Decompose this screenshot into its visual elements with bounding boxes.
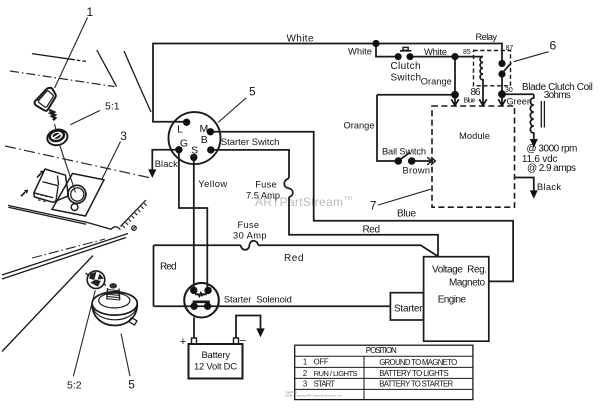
svg-text:Fuse: Fuse: [255, 180, 277, 190]
svg-text:B: B: [201, 134, 208, 146]
svg-text:Fuse: Fuse: [238, 220, 260, 230]
svg-text:30: 30: [505, 87, 513, 94]
svg-text:7: 7: [370, 199, 377, 213]
svg-text:Switch: Switch: [391, 73, 422, 84]
svg-text:Brown: Brown: [403, 166, 431, 176]
svg-text:–: –: [240, 335, 247, 347]
svg-text:2: 2: [303, 369, 307, 378]
svg-text:Clutch: Clutch: [391, 61, 421, 72]
svg-text:Red: Red: [284, 253, 304, 264]
svg-text:S: S: [191, 145, 198, 157]
svg-text:POSITION: POSITION: [366, 346, 397, 355]
svg-text:Relay: Relay: [476, 32, 498, 42]
svg-text:Red: Red: [363, 224, 381, 235]
svg-text:Black: Black: [155, 159, 178, 169]
svg-text:Orange: Orange: [344, 120, 375, 130]
svg-text:Green: Green: [507, 97, 533, 107]
svg-text:12 Volt DC: 12 Volt DC: [194, 360, 237, 371]
svg-text:BATTERY TO STARTER: BATTERY TO STARTER: [379, 380, 453, 389]
svg-text:RUN / LIGHTS: RUN / LIGHTS: [314, 369, 358, 378]
svg-text:Starter: Starter: [394, 303, 423, 314]
svg-text:Starter Solenoid: Starter Solenoid: [224, 294, 292, 305]
svg-text:L: L: [177, 124, 183, 136]
svg-text:+: +: [180, 336, 186, 348]
svg-text:Black: Black: [537, 182, 561, 192]
svg-text:85: 85: [463, 49, 471, 56]
svg-text:Voltage Reg.: Voltage Reg.: [432, 264, 487, 275]
svg-text:White: White: [287, 34, 314, 45]
svg-text:Magneto: Magneto: [449, 278, 485, 289]
svg-text:3: 3: [120, 129, 127, 143]
svg-text:Starter Switch: Starter Switch: [221, 136, 280, 147]
svg-text:Blue: Blue: [464, 97, 476, 104]
svg-text:TM: TM: [344, 196, 352, 202]
svg-text:G: G: [180, 138, 188, 150]
svg-text:5: 5: [128, 378, 135, 392]
svg-text:Module: Module: [459, 130, 490, 141]
svg-text:White: White: [348, 46, 372, 57]
svg-text:5:1: 5:1: [105, 101, 120, 113]
svg-text:@ 2.9 amps: @ 2.9 amps: [527, 163, 576, 174]
svg-text:1: 1: [87, 5, 94, 19]
svg-text:3: 3: [303, 380, 307, 389]
svg-text:87: 87: [506, 45, 514, 52]
svg-text:Battery: Battery: [202, 349, 231, 360]
svg-text:30 Amp: 30 Amp: [233, 231, 267, 241]
svg-text:Blue: Blue: [397, 209, 416, 220]
svg-text:1: 1: [303, 358, 307, 367]
svg-text:Red: Red: [160, 262, 177, 273]
svg-text:Orange: Orange: [421, 76, 452, 86]
svg-text:5: 5: [249, 85, 256, 99]
svg-text:Yellow: Yellow: [198, 179, 227, 190]
svg-text:BATTERY TO LIGHTS: BATTERY TO LIGHTS: [379, 369, 449, 378]
svg-text:Engine: Engine: [438, 295, 467, 306]
svg-text:Bail Switch: Bail Switch: [382, 147, 426, 157]
svg-text:OFF: OFF: [314, 358, 329, 367]
svg-text:6: 6: [550, 39, 557, 53]
svg-text:5:2: 5:2: [67, 380, 82, 392]
svg-text:GROUND TO MAGNETO: GROUND TO MAGNETO: [379, 358, 457, 367]
svg-text:White: White: [424, 46, 447, 57]
svg-text:3ohms: 3ohms: [544, 90, 571, 101]
svg-text:7.5 Amp: 7.5 Amp: [246, 191, 280, 201]
svg-text:START: START: [314, 380, 336, 389]
svg-text:2004 - Copying ARI Network Ser: 2004 - Copying ARI Network Services, inc…: [286, 394, 343, 398]
svg-text:86: 86: [471, 87, 481, 98]
